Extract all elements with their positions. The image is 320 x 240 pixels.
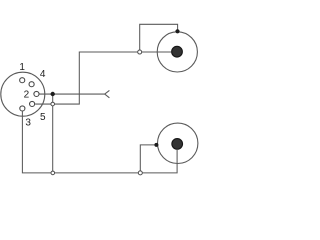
top shield wire	[140, 24, 178, 50]
bottom RCA center pin	[172, 139, 183, 150]
terminal circle ground at bottom wire	[51, 171, 55, 175]
svg-text:5: 5	[40, 112, 46, 123]
top RCA center pin	[172, 46, 183, 57]
DIN connector shell	[1, 72, 45, 116]
wire pin5 to top RCA center pin	[35, 52, 171, 104]
bottom shield wire	[140, 145, 156, 171]
coax split circle bottom	[138, 171, 142, 175]
svg-text:2: 2	[24, 90, 30, 101]
svg-text:4: 4	[40, 69, 46, 80]
ground wire down from pin2 line	[52, 94, 54, 173]
pin 5	[30, 101, 35, 106]
coax split circle top	[138, 50, 142, 54]
top shield junction dot	[175, 29, 179, 33]
crossover circle on pin5 wire	[51, 102, 55, 106]
wire pin2 to cable fork	[39, 93, 104, 95]
svg-text:3: 3	[25, 117, 31, 128]
wire pin3 to bottom RCA center pin	[22, 111, 177, 172]
top RCA shell	[157, 32, 197, 72]
pin 2	[34, 91, 39, 96]
bottom shield junction dot	[154, 143, 158, 147]
cable split symbol	[105, 90, 110, 97]
bottom RCA shell	[158, 123, 198, 163]
junction dot on pin2 wire	[51, 92, 55, 96]
pin 3	[20, 106, 25, 111]
pin 1	[20, 78, 25, 83]
pin 4	[29, 82, 34, 87]
svg-text:1: 1	[19, 62, 25, 73]
